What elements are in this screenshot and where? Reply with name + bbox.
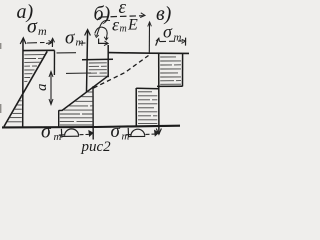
svg-text:т: т: [120, 24, 127, 35]
svg-text:т: т: [76, 37, 84, 49]
svg-text:т: т: [122, 131, 130, 143]
svg-text:т: т: [54, 131, 62, 143]
svg-text:т: т: [38, 24, 47, 38]
svg-text:Е: Е: [127, 17, 138, 34]
svg-text:рис2: рис2: [81, 139, 112, 154]
svg-text:ε: ε: [119, 0, 127, 18]
svg-text:т: т: [174, 32, 182, 44]
svg-text:σ: σ: [163, 22, 173, 42]
svg-text:a: a: [34, 84, 50, 92]
svg-text:σ: σ: [27, 16, 38, 38]
svg-text:б): б): [94, 3, 111, 25]
svg-text:σ: σ: [111, 121, 121, 142]
svg-text:σ: σ: [41, 121, 52, 143]
svg-text:σ: σ: [65, 28, 75, 49]
